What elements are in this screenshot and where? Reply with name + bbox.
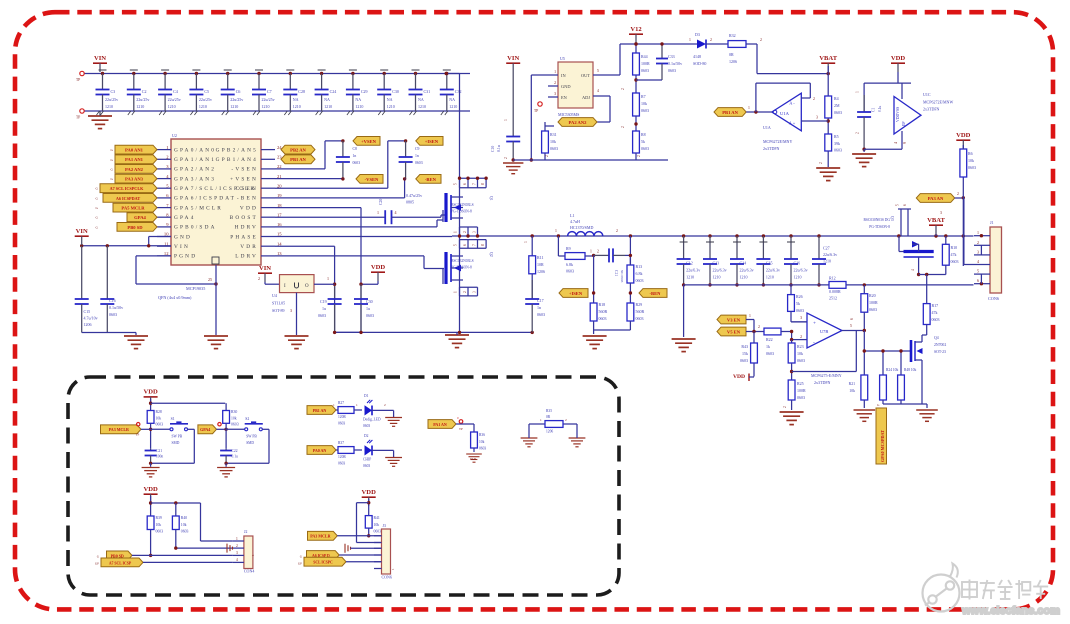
svg-text:SOT-23: SOT-23	[934, 350, 946, 354]
svg-text:2: 2	[819, 162, 823, 164]
svg-text:4: 4	[236, 558, 238, 562]
svg-text:1: 1	[540, 418, 542, 422]
svg-text:4: 4	[597, 89, 599, 93]
svg-text:BSC032N03LS: BSC032N03LS	[451, 203, 474, 207]
svg-text:2: 2	[554, 81, 556, 85]
svg-text:NA: NA	[387, 97, 393, 102]
svg-text:C30: C30	[392, 89, 399, 94]
svg-text:0603: 0603	[766, 351, 774, 356]
svg-text:0603: 0603	[363, 464, 370, 468]
svg-text:CON4: CON4	[244, 569, 254, 574]
svg-text:9: 9	[903, 142, 907, 144]
svg-text:GPA0 MCSPDAT: GPA0 MCSPDAT	[880, 430, 885, 462]
svg-text:22u/25v: 22u/25v	[199, 97, 212, 102]
svg-text:R35: R35	[546, 409, 552, 413]
svg-text:R43: R43	[741, 344, 748, 349]
svg-text:100R: 100R	[869, 300, 878, 305]
svg-text:SW PB: SW PB	[172, 435, 183, 439]
svg-text:R23: R23	[797, 344, 804, 349]
svg-text:PHASE: PHASE	[230, 234, 258, 240]
svg-text:1: 1	[333, 403, 335, 407]
svg-text:2: 2	[616, 229, 618, 233]
svg-text:J2: J2	[244, 530, 247, 534]
svg-text:R44: R44	[641, 54, 648, 59]
svg-text:1: 1	[555, 229, 557, 233]
svg-text:0603: 0603	[740, 358, 748, 363]
svg-text:22u/6.3v: 22u/6.3v	[740, 268, 754, 273]
svg-text:PAD: PAD	[470, 457, 477, 461]
svg-text:47k: 47k	[951, 252, 957, 257]
svg-text:0603: 0603	[366, 313, 374, 318]
svg-text:O: O	[305, 284, 309, 289]
svg-text:0.47u/25v: 0.47u/25v	[406, 193, 422, 198]
svg-text:10k: 10k	[374, 523, 380, 527]
svg-text:C3: C3	[111, 89, 116, 94]
svg-text:C16: C16	[109, 298, 116, 303]
svg-text:2: 2	[813, 97, 815, 101]
svg-text:V3 EN: V3 EN	[727, 317, 741, 322]
svg-text:0603: 0603	[550, 146, 558, 151]
svg-text:2: 2	[258, 276, 260, 281]
svg-text:-BEN: -BEN	[237, 196, 258, 202]
svg-text:1: 1	[748, 106, 750, 110]
svg-text:C32: C32	[455, 89, 462, 94]
svg-text:1210: 1210	[686, 275, 694, 280]
svg-text:R9: R9	[566, 246, 571, 251]
svg-text:1206: 1206	[729, 59, 737, 64]
svg-text:0603: 0603	[641, 68, 649, 73]
svg-text:1: 1	[856, 91, 860, 93]
svg-text:VIN: VIN	[174, 244, 190, 250]
svg-text:1210: 1210	[713, 275, 721, 280]
svg-text:10k: 10k	[181, 523, 187, 527]
svg-text:3: 3	[940, 211, 942, 215]
svg-text:R31: R31	[550, 132, 557, 137]
svg-text:22u/25v: 22u/25v	[136, 97, 149, 102]
svg-text:2: 2	[783, 406, 787, 408]
svg-text:1210: 1210	[449, 104, 457, 109]
svg-text:PB1 AN: PB1 AN	[290, 157, 306, 162]
svg-text:+: +	[813, 321, 816, 327]
svg-text:1210: 1210	[105, 104, 113, 109]
svg-text:R28: R28	[156, 410, 162, 414]
svg-text:PA1 AN1: PA1 AN1	[125, 157, 144, 162]
svg-text:15k: 15k	[742, 351, 748, 356]
svg-text:+VSEN: +VSEN	[361, 139, 377, 144]
svg-text:2: 2	[236, 544, 238, 548]
svg-text:0603: 0603	[231, 423, 239, 427]
svg-text:0603: 0603	[932, 317, 940, 322]
svg-text:1210: 1210	[740, 275, 748, 280]
svg-text:HC1370/SMD: HC1370/SMD	[570, 225, 593, 230]
svg-text:-BEN: -BEN	[650, 291, 662, 296]
svg-text:3: 3	[816, 116, 818, 120]
svg-text:10R: 10R	[537, 262, 544, 267]
svg-text:R25: R25	[797, 381, 804, 386]
svg-text:22u/25v: 22u/25v	[262, 97, 275, 102]
svg-text:GPA4: GPA4	[174, 215, 196, 221]
svg-text:PA2 AN2: PA2 AN2	[569, 120, 588, 125]
svg-text:TP: TP	[534, 109, 538, 113]
svg-text:VDDVSS: VDDVSS	[896, 107, 900, 122]
svg-text:0.1u: 0.1u	[232, 455, 238, 459]
svg-text:22u/25v: 22u/25v	[168, 97, 181, 102]
svg-text:A7 SCL ICSPCLK: A7 SCL ICSPCLK	[110, 186, 144, 191]
svg-text:0603: 0603	[797, 395, 805, 400]
svg-text:7: 7	[473, 244, 477, 246]
svg-text:GP: GP	[95, 561, 99, 565]
svg-text:0603: 0603	[338, 422, 345, 426]
svg-text:R7: R7	[641, 94, 646, 99]
svg-text:R29: R29	[636, 302, 643, 307]
svg-text:0.1u: 0.1u	[878, 106, 882, 112]
svg-text:EP: EP	[902, 122, 906, 126]
svg-text:PA0 AN: PA0 AN	[313, 448, 327, 453]
svg-text:4.7u/10v: 4.7u/10v	[84, 316, 98, 321]
svg-text:0.1u/50v: 0.1u/50v	[109, 305, 123, 310]
svg-text:R26: R26	[796, 294, 803, 299]
svg-text:A -: A -	[789, 101, 795, 106]
svg-text:HDRV: HDRV	[235, 225, 258, 231]
svg-text:D2: D2	[364, 434, 369, 438]
svg-text:1210: 1210	[293, 104, 301, 109]
svg-text:R17: R17	[932, 303, 939, 308]
svg-text:10k: 10k	[156, 523, 162, 527]
svg-text:R6: R6	[968, 151, 973, 156]
svg-text:R24 10k: R24 10k	[886, 368, 898, 372]
svg-text:0603: 0603	[338, 462, 345, 466]
svg-text:1: 1	[554, 70, 556, 74]
svg-text:100R: 100R	[641, 61, 650, 66]
svg-text:0603: 0603	[479, 447, 486, 451]
svg-text:5k: 5k	[796, 301, 800, 306]
svg-text:2x3TDFN: 2x3TDFN	[814, 380, 831, 385]
svg-text:0R: 0R	[729, 52, 734, 57]
svg-text:4.7uH: 4.7uH	[570, 219, 580, 224]
svg-text:C11: C11	[614, 270, 618, 276]
svg-text:BOOST: BOOST	[230, 215, 258, 221]
svg-text:VDD: VDD	[240, 205, 258, 211]
svg-text:2x3TDFN: 2x3TDFN	[763, 146, 780, 151]
svg-text:120R: 120R	[338, 415, 346, 419]
svg-text:NA: NA	[355, 97, 361, 102]
svg-text:U7B: U7B	[820, 329, 828, 334]
svg-text:R12: R12	[829, 276, 836, 281]
svg-text:0603: 0603	[834, 148, 842, 153]
svg-text:6.8k: 6.8k	[636, 271, 643, 276]
svg-text:0603: 0603	[318, 313, 326, 318]
svg-text:0603: 0603	[641, 146, 649, 151]
svg-text:C4: C4	[173, 89, 178, 94]
svg-text:0603: 0603	[641, 108, 649, 113]
svg-text:VDD: VDD	[733, 374, 745, 380]
svg-text:1: 1	[689, 38, 691, 42]
svg-text:2: 2	[463, 231, 467, 233]
svg-text:R40: R40	[181, 516, 187, 520]
svg-text:2: 2	[565, 418, 567, 422]
svg-text:3: 3	[236, 551, 238, 555]
svg-text:MCP6275-E/MNY: MCP6275-E/MNY	[811, 373, 842, 378]
svg-text:CSEN: CSEN	[236, 186, 258, 192]
svg-text:OUT: OUT	[581, 73, 590, 78]
svg-text:2: 2	[597, 250, 599, 254]
svg-text:C33: C33	[668, 54, 675, 59]
svg-text:1210: 1210	[199, 104, 207, 109]
svg-text:22u/25v: 22u/25v	[230, 97, 243, 102]
svg-text:C6: C6	[236, 89, 241, 94]
svg-text:Q1: Q1	[489, 196, 493, 201]
svg-text:1210: 1210	[794, 275, 802, 280]
svg-text:PA3 AN3: PA3 AN3	[125, 177, 144, 182]
svg-text:PA3 MCLR: PA3 MCLR	[310, 534, 330, 539]
svg-text:U5: U5	[560, 56, 565, 61]
svg-text:2: 2	[710, 38, 712, 42]
svg-text:PA3 MCLR: PA3 MCLR	[109, 427, 129, 432]
svg-text:BSC030N03S DG: BSC030N03S DG	[864, 218, 891, 222]
svg-text:C7: C7	[267, 89, 272, 94]
svg-text:GND: GND	[174, 234, 192, 240]
svg-text:0R: 0R	[546, 415, 551, 419]
svg-text:1: 1	[454, 231, 458, 233]
svg-text:C29: C29	[361, 89, 368, 94]
svg-text:1u: 1u	[366, 306, 370, 311]
svg-text:U1C: U1C	[923, 92, 931, 97]
svg-text:Q3: Q3	[890, 216, 894, 221]
svg-text:560R: 560R	[636, 309, 645, 314]
svg-text:PA0 AN1: PA0 AN1	[125, 148, 144, 153]
svg-text:10k: 10k	[641, 101, 647, 106]
svg-text:GPB1/AN4: GPB1/AN4	[216, 157, 258, 163]
svg-text:0603: 0603	[353, 161, 361, 165]
svg-text:2: 2	[504, 157, 508, 159]
svg-text:J1: J1	[990, 220, 994, 225]
svg-text:0603: 0603	[363, 424, 370, 428]
svg-text:10k: 10k	[968, 158, 974, 163]
svg-text:22u/6.3v: 22u/6.3v	[686, 268, 700, 273]
svg-text:CON6: CON6	[382, 575, 392, 580]
svg-text:NA: NA	[418, 97, 424, 102]
svg-text:R27: R27	[338, 401, 344, 405]
svg-text:GPB0/SDA: GPB0/SDA	[174, 225, 217, 231]
svg-text:0603: 0603	[968, 165, 976, 170]
svg-text:R22: R22	[766, 337, 773, 342]
svg-text:TP: TP	[136, 433, 140, 437]
svg-text:1n: 1n	[353, 154, 357, 158]
svg-text:1n: 1n	[415, 154, 419, 158]
svg-text:TP: TP	[76, 78, 80, 82]
svg-text:1: 1	[236, 537, 238, 541]
svg-text:LDRV: LDRV	[235, 254, 258, 260]
svg-text:A7 SCL ICSP: A7 SCL ICSP	[109, 561, 132, 565]
svg-text:1210: 1210	[168, 104, 176, 109]
svg-text:C28: C28	[298, 89, 305, 94]
svg-text:0603: 0603	[834, 110, 842, 115]
svg-text:22u/6.3v: 22u/6.3v	[713, 268, 727, 273]
svg-text:6: 6	[903, 204, 907, 206]
svg-text:6: 6	[463, 244, 467, 246]
svg-text:6: 6	[977, 278, 979, 283]
svg-text:BSC032N03LS: BSC032N03LS	[451, 259, 474, 263]
svg-text:VDD: VDD	[143, 389, 158, 396]
svg-text:VIN: VIN	[94, 55, 106, 62]
svg-text:0603: 0603	[668, 68, 676, 73]
svg-text:0603: 0603	[181, 530, 189, 534]
svg-text:Q4: Q4	[934, 336, 939, 340]
svg-text:5: 5	[597, 69, 599, 73]
svg-text:2: 2	[957, 192, 959, 196]
svg-text:R20: R20	[869, 293, 876, 298]
svg-text:www.elecfans.com: www.elecfans.com	[961, 605, 1060, 617]
svg-text:NA: NA	[449, 97, 455, 102]
svg-text:0.008R: 0.008R	[829, 289, 841, 294]
svg-text:0603: 0603	[636, 278, 644, 283]
svg-text:GPA1/AN1: GPA1/AN1	[174, 157, 216, 163]
svg-text:Q2: Q2	[489, 252, 493, 257]
svg-text:2: 2	[384, 403, 386, 407]
svg-text:SW PB: SW PB	[246, 435, 257, 439]
svg-text:PG-TDSON-8: PG-TDSON-8	[451, 266, 472, 270]
svg-text:1210: 1210	[262, 104, 270, 109]
svg-text:R21: R21	[849, 382, 855, 386]
svg-text:4148: 4148	[693, 54, 701, 59]
svg-text:PG-TDSON-8: PG-TDSON-8	[869, 225, 890, 229]
svg-text:10k: 10k	[550, 139, 556, 144]
svg-text:-VSEN: -VSEN	[365, 177, 379, 182]
svg-text:VDR: VDR	[240, 244, 258, 250]
svg-text:560R: 560R	[599, 309, 608, 314]
svg-text:PB1 AN: PB1 AN	[313, 408, 327, 413]
svg-text:R41: R41	[374, 516, 380, 520]
svg-text:5: 5	[454, 244, 458, 246]
svg-text:R48 10k: R48 10k	[904, 368, 916, 372]
svg-text:-VSEN: -VSEN	[231, 167, 258, 173]
svg-text:C14: C14	[740, 261, 747, 266]
svg-text:C9: C9	[415, 147, 420, 151]
svg-text:C15: C15	[84, 309, 91, 314]
svg-text:C1: C1	[872, 107, 876, 112]
svg-text:3: 3	[290, 308, 292, 313]
svg-text:PA5 MCLR: PA5 MCLR	[121, 206, 145, 211]
svg-text:4: 4	[894, 142, 898, 144]
svg-text:MIC5305MS: MIC5305MS	[558, 112, 579, 117]
svg-text:CHIP: CHIP	[363, 458, 371, 462]
svg-text:C27: C27	[823, 246, 830, 251]
svg-text:2512: 2512	[829, 296, 837, 301]
svg-text:4: 4	[977, 259, 979, 264]
svg-text:QFN (4x4 x0.9mm): QFN (4x4 x0.9mm)	[158, 295, 192, 300]
svg-text:1206: 1206	[546, 430, 553, 434]
svg-text:R8: R8	[641, 132, 646, 137]
svg-text:1: 1	[327, 276, 329, 281]
svg-text:A6 ICSPDAT: A6 ICSPDAT	[116, 196, 140, 201]
svg-text:SMD: SMD	[172, 441, 180, 445]
svg-text:V12: V12	[630, 26, 642, 33]
svg-text:0603: 0603	[415, 161, 423, 165]
svg-text:2x3TDFN: 2x3TDFN	[923, 107, 940, 112]
svg-text:V5 EN: V5 EN	[727, 329, 741, 334]
svg-text:SOD-80: SOD-80	[693, 61, 706, 66]
svg-text:2: 2	[637, 155, 641, 157]
svg-text:U1A: U1A	[763, 125, 771, 130]
svg-text:GPA4: GPA4	[200, 427, 210, 432]
svg-text:22u/6.3v: 22u/6.3v	[823, 252, 837, 257]
svg-text:10k: 10k	[231, 417, 237, 421]
svg-text:EN: EN	[561, 95, 568, 100]
svg-text:1210: 1210	[418, 104, 426, 109]
svg-text:GPA6/ICSPDAT: GPA6/ICSPDAT	[174, 196, 236, 202]
svg-text:C19: C19	[320, 299, 327, 304]
svg-text:100n: 100n	[156, 455, 163, 459]
svg-text:R39: R39	[156, 516, 162, 520]
svg-text:5: 5	[850, 324, 852, 328]
svg-text:47k: 47k	[932, 310, 938, 315]
svg-text:SCL ICSPC: SCL ICSPC	[313, 561, 333, 565]
svg-text:+ISEN: +ISEN	[425, 139, 439, 144]
svg-text:0603: 0603	[566, 269, 574, 274]
svg-text:0805: 0805	[406, 200, 414, 205]
svg-text:PGND: PGND	[174, 254, 197, 260]
svg-text:C22: C22	[232, 449, 238, 453]
svg-text:MCP6272E/MNW: MCP6272E/MNW	[923, 100, 953, 105]
svg-text:-BEN: -BEN	[425, 177, 437, 182]
svg-text:1: 1	[377, 210, 379, 215]
svg-text:PB0 SD: PB0 SD	[127, 225, 143, 230]
svg-text:1u: 1u	[322, 306, 326, 311]
svg-text:5k: 5k	[641, 139, 645, 144]
svg-text:ADJ: ADJ	[582, 95, 590, 100]
svg-text:C21: C21	[156, 449, 162, 453]
svg-text:6.8k: 6.8k	[566, 262, 573, 267]
svg-text:GPA5/MCLR: GPA5/MCLR	[174, 205, 223, 211]
svg-text:R37: R37	[338, 441, 344, 445]
svg-text:2: 2	[977, 240, 979, 245]
svg-text:2: 2	[621, 88, 625, 90]
svg-text:7: 7	[473, 183, 477, 185]
svg-text:2: 2	[621, 126, 625, 128]
svg-text:R36: R36	[479, 433, 485, 437]
svg-text:1: 1	[356, 403, 358, 407]
svg-text:3: 3	[473, 291, 477, 293]
svg-text:5: 5	[454, 183, 458, 185]
svg-text:6: 6	[463, 183, 467, 185]
svg-text:10k: 10k	[156, 417, 162, 421]
svg-text:C12: C12	[686, 261, 693, 266]
svg-text:S2: S2	[245, 417, 249, 421]
svg-text:NC 0603: NC 0603	[620, 270, 624, 283]
svg-text:J3: J3	[383, 524, 386, 528]
svg-text:0603: 0603	[156, 530, 164, 534]
svg-text:1210: 1210	[766, 275, 774, 280]
svg-text:10k: 10k	[479, 440, 485, 444]
svg-text:VDD: VDD	[143, 486, 158, 493]
svg-text:0603: 0603	[796, 308, 804, 313]
svg-text:SOT-89: SOT-89	[272, 308, 285, 313]
svg-text:ST1L05: ST1L05	[272, 301, 285, 306]
svg-text:2: 2	[800, 335, 802, 339]
svg-text:NA: NA	[293, 97, 299, 102]
svg-text:0.1u/50v: 0.1u/50v	[668, 61, 682, 66]
svg-text:-: -	[813, 340, 815, 346]
svg-text:10k: 10k	[849, 389, 855, 393]
svg-text:8: 8	[481, 244, 485, 246]
svg-text:TP: TP	[76, 116, 80, 120]
svg-text:0603: 0603	[156, 423, 164, 427]
svg-text:VIN: VIN	[259, 265, 271, 272]
svg-text:VDD: VDD	[956, 132, 971, 139]
svg-text:22u/25v: 22u/25v	[105, 97, 118, 102]
svg-text:L1: L1	[570, 213, 574, 218]
svg-text:1: 1	[749, 314, 751, 318]
